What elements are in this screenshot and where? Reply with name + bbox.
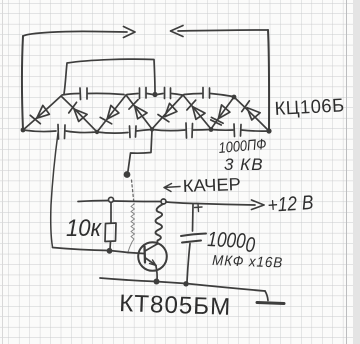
node J bbox=[152, 92, 157, 97]
transistor collector line bbox=[145, 244, 158, 252]
wire: bottom rail C-cap2 bbox=[97, 132, 128, 133]
diode D8 bbox=[240, 101, 261, 121]
capacitor CT2 bbox=[140, 88, 147, 99]
wire: emitter to rail bbox=[156, 266, 157, 281]
node E bbox=[150, 127, 154, 131]
node H bbox=[232, 95, 237, 100]
wire: diagonal A-B bbox=[23, 96, 61, 130]
wire: top rail J-capT3 bbox=[157, 94, 163, 95]
wire: +12V rail bbox=[78, 201, 108, 202]
wire: diagonal E-F bbox=[152, 95, 183, 129]
transistor emitter line with arrow bbox=[146, 258, 157, 266]
wire: diagonal D-E bbox=[126, 95, 152, 129]
capacitor C2 plates bbox=[181, 234, 206, 237]
node: emitter junction bbox=[154, 279, 160, 285]
capacitor C2 electrolytic: top lead bbox=[192, 205, 195, 232]
capacitor CB1 bbox=[58, 125, 65, 140]
wire: bottom rail G-cap4 bbox=[211, 129, 233, 132]
wire: top rail capT2-J bbox=[147, 94, 153, 95]
coil L2 (base winding, fine zigzag) bbox=[128, 204, 135, 252]
wire: top rail capT1-D bbox=[88, 93, 124, 94]
wire: dotted coupling bbox=[132, 180, 135, 204]
coil L1 (collector winding) bbox=[155, 204, 163, 244]
wire: right vertical bbox=[268, 30, 269, 131]
wire: base line bbox=[53, 248, 129, 253]
terminal: HV tap end bbox=[124, 172, 130, 178]
resistor R1 leads and body bbox=[110, 203, 112, 224]
wire: HV tap from node E down bbox=[128, 130, 152, 171]
wire: bottom rail cap3-G bbox=[193, 129, 211, 132]
capacitor CT3 bbox=[165, 88, 171, 99]
wire: diagonal G-H bbox=[211, 97, 234, 129]
diode D4 bbox=[128, 100, 148, 121]
diode D1 bbox=[30, 105, 51, 125]
node I bbox=[266, 128, 271, 133]
arrow: KACHER label arrow bbox=[164, 184, 180, 192]
svg-text:10к: 10к bbox=[66, 215, 103, 242]
arrowhead left bbox=[171, 26, 184, 37]
wire: top rail B-capT1 bbox=[62, 94, 79, 96]
transistor base bar bbox=[143, 247, 146, 263]
wire: bottom rail cap1-C bbox=[66, 131, 97, 133]
wire: left vertical bbox=[21, 36, 24, 130]
capacitor CB3 bbox=[186, 123, 193, 138]
capacitor CB4 bbox=[234, 124, 241, 137]
capacitor C2 bottom lead bbox=[187, 244, 190, 283]
transistor Q1 circle bbox=[138, 242, 167, 271]
node C bbox=[95, 130, 99, 134]
wire: inner loop bbox=[64, 59, 155, 94]
wire: diagonal F-G bbox=[183, 95, 211, 129]
svg-text:+12 В: +12 В bbox=[267, 192, 314, 217]
diode D5 bbox=[158, 103, 178, 124]
wire: ground rail bbox=[100, 278, 265, 291]
wire: top-left output line bbox=[23, 31, 127, 36]
wire: bottom rail A-cap1 bbox=[23, 130, 56, 132]
wire: diagonal C-D bbox=[97, 95, 126, 132]
node: resistor bottom junction bbox=[107, 248, 113, 254]
wire: top rail capT3-F bbox=[172, 94, 183, 96]
diode D3 bbox=[100, 105, 120, 126]
wire: top rail F-capT4 bbox=[184, 94, 202, 95]
node A bbox=[21, 128, 26, 133]
arrowhead +12V bbox=[252, 200, 265, 210]
capacitor C2 plus sign bbox=[195, 204, 203, 212]
resistor R1 10k: top terminal ring bbox=[109, 197, 114, 202]
svg-text:КТ805БМ: КТ805БМ bbox=[119, 290, 232, 321]
node: capacitor junction bbox=[183, 281, 188, 286]
wire: left drop from bottom rail bbox=[51, 133, 58, 247]
terminal ring: coil top bbox=[161, 199, 166, 204]
node G bbox=[209, 127, 214, 132]
diode D7 bbox=[210, 104, 231, 127]
wire: top-right line bbox=[178, 30, 268, 31]
ground symbol bbox=[265, 291, 268, 301]
wire: bottom rail cap2-E bbox=[137, 130, 153, 132]
svg-text:КАЧЕР: КАЧЕР bbox=[182, 174, 241, 196]
capacitor CT4 bbox=[203, 88, 210, 99]
capacitor CT1 bbox=[80, 88, 87, 100]
transistor base lead bbox=[128, 253, 144, 254]
wire: top rail capT4-H bbox=[211, 94, 234, 97]
svg-text:МКФ х16В: МКФ х16В bbox=[212, 253, 284, 271]
capacitor CB2 bbox=[130, 126, 137, 138]
wire: top rail D-capT2 bbox=[127, 94, 138, 95]
arrowhead right bbox=[124, 27, 136, 38]
svg-text:КЦ106Б: КЦ106Б bbox=[274, 95, 345, 120]
svg-text:3 КВ: 3 КВ bbox=[224, 155, 264, 174]
wire: bottom rail cap4-I bbox=[242, 130, 270, 131]
diode D6 bbox=[186, 100, 206, 121]
wire: bottom rail E-cap3 bbox=[152, 130, 185, 131]
wire: diagonal H-I bbox=[234, 97, 269, 131]
diode D2 bbox=[67, 102, 88, 123]
wire: diagonal B-C bbox=[61, 96, 97, 132]
